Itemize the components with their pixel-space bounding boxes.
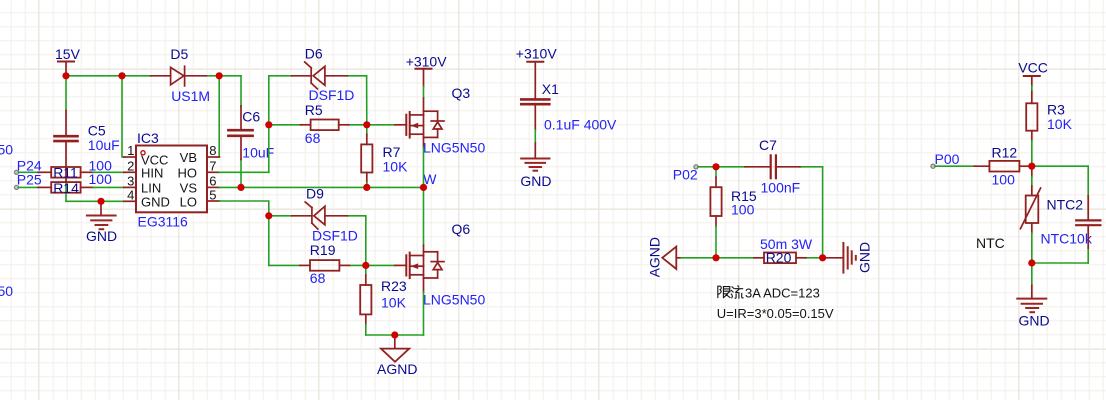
wire pin8 VB drop (218, 76, 220, 157)
svg-text:100nF: 100nF (761, 179, 801, 195)
wire D6 branch verticals (269, 76, 367, 125)
svg-text:GND: GND (1019, 312, 1050, 328)
svg-text:NTC2: NTC2 (1047, 196, 1084, 212)
svg-text:0.1uF 400V: 0.1uF 400V (544, 117, 617, 133)
resistor R20 50m 3W (754, 236, 813, 265)
svg-text:7: 7 (209, 159, 216, 174)
svg-text:LNG5N50: LNG5N50 (423, 140, 485, 156)
svg-text:US1M: US1M (171, 88, 210, 104)
svg-text:R23: R23 (381, 278, 407, 294)
wire Q6 source / bottom row (366, 278, 424, 335)
svg-text:DSF1D: DSF1D (309, 87, 355, 103)
wire LO route (219, 201, 268, 216)
svg-text:GND: GND (857, 242, 873, 273)
wire VS line to W (219, 186, 423, 188)
wire D9 branch (269, 216, 366, 266)
node junction 15V/C5 (62, 72, 69, 79)
svg-text:R7: R7 (383, 144, 401, 160)
svg-text:VS: VS (180, 181, 198, 196)
power VCC (1018, 59, 1048, 86)
capacitor C5 10uF (55, 111, 120, 182)
wire R5 row (269, 124, 395, 126)
node junction AGND tap (391, 331, 398, 338)
svg-text:3: 3 (127, 174, 134, 189)
resistor R19 68 (300, 242, 349, 286)
node junction R15/AGND row (712, 254, 719, 261)
node junction VCC drop (118, 72, 125, 79)
svg-text:DSF1D: DSF1D (312, 228, 358, 244)
node junction R5 left (265, 121, 272, 128)
resistor R15 100 (710, 167, 756, 258)
svg-text:4: 4 (127, 187, 134, 202)
diode D5 US1M (151, 46, 211, 104)
wire HO route (219, 125, 268, 173)
node junction C6/VS (237, 184, 244, 191)
wire C5 branch (66, 76, 124, 202)
ground AGND (middle, left-pointing) (647, 237, 682, 277)
ground GND (right) (1017, 263, 1049, 328)
node junction D5 cathode (216, 72, 223, 79)
svg-text:NTC: NTC (976, 235, 1005, 251)
node junction R3/R12/NTC (1028, 163, 1035, 170)
thermistor NTC2 NTC10k (1020, 166, 1092, 263)
capacitor X1 0.1uF 400V (521, 81, 617, 158)
svg-text:D5: D5 (170, 46, 188, 62)
wire top rail 15V to C6 corner (66, 75, 241, 77)
svg-text:68: 68 (305, 130, 321, 146)
resistor R14 100 (38, 171, 112, 196)
wire AGND row (681, 257, 823, 259)
node junction R7/VS (363, 184, 370, 191)
svg-text:Q3: Q3 (452, 85, 471, 101)
svg-text:AGND: AGND (647, 237, 663, 277)
annotation 限流3A ADC=123 (718, 285, 820, 300)
transistor Q3 LNG5N50 (395, 85, 485, 156)
svg-text:X1: X1 (542, 81, 559, 97)
capacitor (parallel with NTC2) (1076, 196, 1100, 248)
svg-text:15V: 15V (55, 46, 81, 62)
svg-text:100: 100 (731, 202, 755, 218)
port P02 (673, 165, 698, 183)
svg-text:U=IR=3*0.05=0.15V: U=IR=3*0.05=0.15V (717, 306, 834, 321)
resistor R11 100 (38, 157, 112, 180)
svg-text:HO: HO (178, 166, 198, 181)
wire C7 row (716, 167, 823, 258)
node junction P02/R15/C7 (712, 163, 719, 170)
svg-text:50m 3W: 50m 3W (760, 236, 813, 252)
wire Q3 drain (423, 86, 425, 115)
svg-text:IC3: IC3 (137, 130, 159, 146)
svg-text:AGND: AGND (377, 361, 417, 377)
svg-text:50: 50 (0, 142, 13, 158)
svg-text:+310V: +310V (516, 45, 558, 61)
transistor Q6 LNG5N50 (395, 221, 485, 307)
wire C6 branch (240, 76, 242, 188)
svg-text:HIN: HIN (141, 166, 163, 181)
svg-text:LIN: LIN (141, 181, 161, 196)
svg-text:2: 2 (127, 159, 134, 174)
resistor R3 10K (1026, 86, 1072, 166)
resistor R12 100 (974, 144, 1031, 187)
svg-text:R14: R14 (53, 180, 79, 196)
svg-text:VCC: VCC (1018, 59, 1048, 75)
ground GND (left) (86, 201, 117, 244)
wire R11 to pin2 (93, 171, 124, 173)
port P24 (14, 158, 42, 175)
node junction R19/R23 (362, 262, 369, 269)
svg-text:5: 5 (209, 187, 216, 202)
wire P00 to R12 (935, 165, 974, 167)
wire R14 to pin3 (93, 186, 124, 188)
svg-text:10K: 10K (381, 295, 407, 311)
svg-text:P25: P25 (17, 171, 42, 187)
wire pin1 VCC drop (122, 76, 124, 157)
ground GND (X1) (520, 159, 551, 190)
svg-text:D6: D6 (305, 46, 323, 62)
svg-text:P02: P02 (673, 166, 698, 182)
capacitor C7 100nF (745, 137, 800, 195)
svg-text:100: 100 (992, 172, 1016, 188)
wire P24 to R11 (18, 171, 38, 173)
svg-text:6: 6 (209, 174, 216, 189)
svg-text:R19: R19 (310, 242, 336, 258)
svg-text:LO: LO (180, 194, 197, 209)
wire parallel cap branch (1032, 166, 1088, 263)
svg-text:10K: 10K (383, 159, 409, 175)
port P00 (931, 151, 960, 168)
svg-text:3A ADC=123: 3A ADC=123 (745, 285, 820, 300)
power +310V (X1) (516, 45, 558, 99)
svg-text:GND: GND (141, 194, 170, 209)
wire Q3 source to W (423, 137, 425, 187)
wire Q6 drain from W (423, 187, 425, 255)
resistor R7 10K (361, 125, 408, 188)
svg-text:C5: C5 (88, 122, 106, 138)
svg-text:R12: R12 (992, 144, 1018, 160)
svg-text:10uF: 10uF (88, 137, 120, 153)
svg-text:C7: C7 (759, 137, 777, 153)
node junction NTC bottom (1028, 259, 1035, 266)
svg-text:8: 8 (209, 143, 216, 158)
svg-text:VB: VB (180, 150, 197, 165)
svg-text:LNG5N50: LNG5N50 (423, 291, 485, 307)
svg-text:C6: C6 (242, 109, 260, 125)
ground AGND (lower) (377, 335, 417, 377)
port P25 (14, 171, 42, 189)
capacitor C6 10uF (228, 106, 274, 161)
power +310V (Q3) (406, 54, 448, 87)
svg-text:GND: GND (520, 173, 551, 189)
svg-text:68: 68 (310, 270, 326, 286)
svg-text:Q6: Q6 (452, 221, 471, 237)
svg-text:100: 100 (89, 171, 113, 187)
svg-text:EG3116: EG3116 (138, 214, 189, 230)
wire P25 to R14 (18, 186, 38, 188)
svg-text:GND: GND (86, 228, 117, 244)
node junction D9 anode (265, 212, 272, 219)
svg-text:R5: R5 (305, 102, 323, 118)
svg-text:+310V: +310V (406, 54, 448, 70)
wire R19 row (269, 264, 395, 266)
node junction GND pin4 (97, 198, 104, 205)
diode D9 DSF1D (292, 185, 358, 243)
svg-text:1: 1 (127, 143, 134, 158)
resistor R23 10K (360, 265, 407, 335)
node junction R5 right / R7 top (363, 121, 370, 128)
resistor R5 68 (301, 102, 349, 146)
ground GND (middle, right-pointing) (823, 242, 873, 273)
svg-text:D9: D9 (306, 185, 324, 201)
power 15V (55, 46, 81, 76)
svg-text:P00: P00 (935, 151, 960, 167)
node junction R20/GND row (819, 254, 826, 261)
svg-text:NTC10k: NTC10k (1041, 231, 1093, 247)
wire P02 to node (698, 166, 716, 168)
op-amp U1 : IC3 EG3116 driver (124, 130, 220, 230)
svg-text:R11: R11 (53, 165, 78, 181)
junction dots on top (62, 72, 1035, 338)
diode D6 DSF1D (292, 46, 355, 104)
svg-text:50: 50 (0, 283, 13, 299)
svg-text:10K: 10K (1047, 116, 1073, 132)
node junction W (420, 184, 427, 191)
